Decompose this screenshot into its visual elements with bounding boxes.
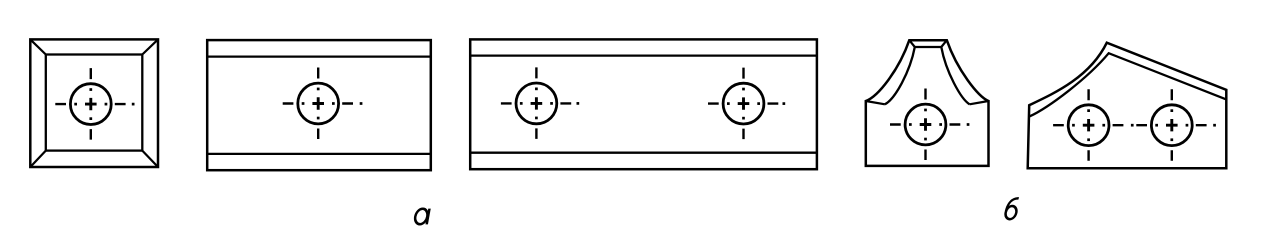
insert 3 top bevel line	[470, 54, 817, 56]
insert 5 inner bevel contour	[1029, 53, 1226, 116]
insert 3 right center mark	[708, 68, 778, 140]
label a (italic Cyrillic)	[414, 209, 430, 225]
insert 2 top bevel line	[207, 55, 431, 57]
insert 4 inner bevel contour	[885, 47, 970, 104]
insert 4 center mark	[890, 89, 960, 161]
insert 1 corner chamfer diagonals	[30, 39, 158, 167]
insert 1 axis dot right	[132, 103, 135, 106]
insert 2 bottom bevel line	[207, 153, 431, 155]
insert 3 left center mark	[501, 67, 571, 138]
label b (italic Cyrillic)	[1005, 198, 1019, 219]
insert 2 center mark	[283, 68, 353, 140]
insert 4 axis dot right	[967, 123, 970, 126]
insert 4 outer profile	[866, 40, 989, 166]
insert 4 bevel tip edges	[866, 40, 989, 104]
insert 2 axis dot right	[360, 102, 363, 105]
insert 1 outer square	[30, 39, 158, 167]
insert 5 left center mark	[1053, 89, 1123, 161]
insert 5 axis dot between holes	[1131, 124, 1134, 127]
insert 1 center mark	[55, 68, 125, 140]
insert 3 bottom bevel line	[470, 152, 817, 154]
insert 1 inner square	[46, 55, 143, 151]
insert 5 outer profile	[1028, 43, 1227, 169]
insert 3 left axis dot	[577, 102, 580, 105]
insert 5 axis dot right	[1213, 124, 1216, 127]
insert 3 rectangle outline	[470, 39, 817, 169]
insert 2 rectangle outline	[207, 40, 431, 170]
insert 5 right center mark	[1136, 89, 1206, 161]
insert 3 right axis dot	[783, 102, 786, 105]
